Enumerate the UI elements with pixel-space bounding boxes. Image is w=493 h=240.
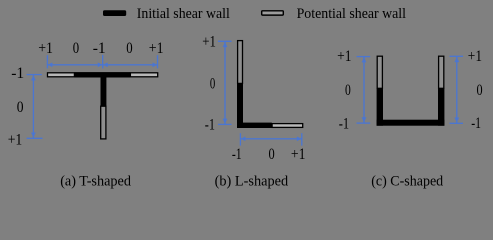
svg-text:+1: +1 — [8, 132, 23, 149]
T horizontal dimension arrowheads — [48, 63, 158, 68]
L horizontal dimension line — [240, 133, 301, 145]
L vertical potential wall — [238, 41, 243, 84]
svg-text:+1: +1 — [291, 146, 306, 163]
svg-text:-1: -1 — [339, 116, 349, 133]
svg-text:(a) T-shaped: (a) T-shaped — [60, 173, 132, 189]
svg-text:-1: -1 — [471, 115, 481, 132]
svg-text:0: 0 — [210, 75, 215, 92]
T stem black wall — [101, 78, 107, 107]
T horizontal dimension line — [47, 55, 157, 69]
L vertical dimension line — [218, 41, 232, 124]
C right dimension arrowheads — [454, 57, 459, 122]
L vertical black wall — [237, 83, 243, 128]
C bottom black wall — [377, 120, 445, 126]
svg-text:-1: -1 — [205, 117, 215, 134]
T flange left potential wall — [48, 73, 75, 77]
svg-text:+1: +1 — [38, 40, 53, 57]
T flange middle black wall — [74, 72, 130, 77]
svg-text:+1: +1 — [337, 48, 351, 65]
svg-text:-1: -1 — [93, 40, 106, 57]
L horizontal potential wall — [272, 124, 303, 128]
svg-text:0: 0 — [73, 40, 79, 57]
svg-text:Potential shear wall: Potential shear wall — [297, 6, 406, 22]
C right dimension line — [450, 56, 464, 123]
svg-text:(c) C-shaped: (c) C-shaped — [371, 173, 444, 189]
svg-text:+1: +1 — [468, 48, 482, 65]
legend: initial shear wall swatch — [103, 10, 126, 16]
C left dimension line — [357, 57, 371, 124]
svg-text:0: 0 — [269, 146, 275, 163]
T flange right potential wall — [130, 73, 157, 77]
legend: potential shear wall swatch — [262, 11, 284, 15]
L vertical dimension arrowheads — [223, 42, 228, 124]
svg-text:-1: -1 — [11, 65, 24, 82]
C left black wall — [377, 88, 383, 125]
T stem potential wall — [101, 106, 106, 139]
svg-text:+1: +1 — [149, 40, 164, 57]
C left dimension arrowheads — [362, 57, 367, 122]
L horizontal black wall — [237, 123, 272, 128]
svg-text:Initial shear wall: Initial shear wall — [137, 6, 230, 22]
svg-text:0: 0 — [477, 82, 483, 99]
C right potential wall — [439, 56, 444, 88]
C right black wall — [438, 88, 444, 125]
C left potential wall — [377, 56, 382, 88]
svg-text:0: 0 — [126, 40, 132, 57]
svg-text:+1: +1 — [202, 33, 216, 50]
T vertical dimension line — [27, 75, 43, 139]
svg-text:0: 0 — [345, 82, 351, 99]
L horizontal dimension arrowheads — [241, 137, 302, 142]
svg-text:0: 0 — [17, 99, 24, 116]
svg-text:(b) L-shaped: (b) L-shaped — [215, 173, 289, 189]
T vertical dimension arrowheads — [31, 75, 36, 137]
svg-text:-1: -1 — [232, 146, 242, 163]
